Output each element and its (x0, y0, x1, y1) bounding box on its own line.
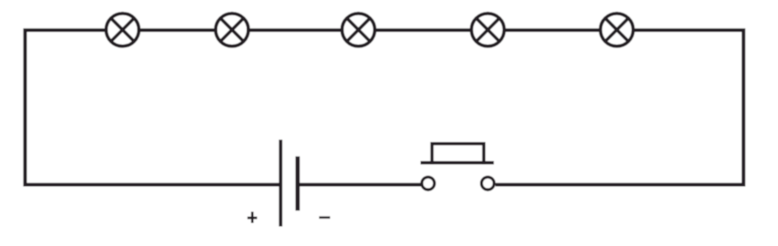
battery negative plate (short line) (295, 156, 299, 210)
battery + label (247, 212, 257, 223)
switch button cap (432, 144, 484, 165)
lamp L3 (342, 13, 375, 46)
battery - label (319, 216, 330, 218)
switch left contact circle (422, 177, 435, 190)
wire: bottom middle segment (battery to switch) (298, 183, 424, 187)
lamp L4 (471, 13, 504, 46)
wire: main loop (left bottom segment, left vertical, top wire, right vertical, right bottom segment) (25, 30, 743, 185)
lamp L5 (600, 13, 633, 46)
lamp L2 (216, 13, 249, 46)
switch actuator bar (421, 161, 494, 164)
switch right contact circle (481, 177, 494, 190)
battery positive plate (long line) (279, 140, 282, 227)
lamp L1 (106, 13, 139, 46)
